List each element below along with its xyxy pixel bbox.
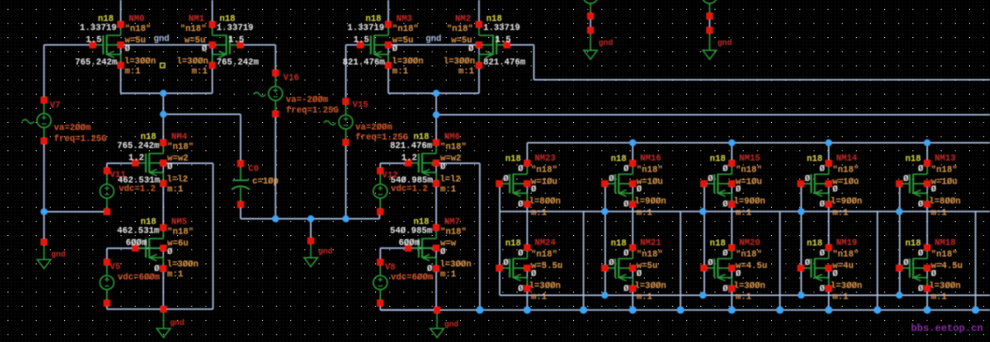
svg-text:NM5: NM5: [171, 217, 187, 227]
svg-text:1.33719: 1.33719: [347, 23, 384, 33]
svg-text:Ø: Ø: [624, 164, 630, 174]
svg-text:Ø: Ø: [918, 200, 924, 210]
svg-text:bbs.eetop.cn: bbs.eetop.cn: [911, 323, 983, 335]
svg-text:"n18": "n18": [180, 24, 206, 34]
svg-text:NM1: NM1: [188, 14, 204, 24]
svg-text:l=3ØØn: l=3ØØn: [167, 260, 199, 270]
svg-text:NM3: NM3: [396, 14, 412, 24]
svg-text:6ØØm: 6ØØm: [399, 238, 420, 248]
svg-text:Ø: Ø: [903, 258, 909, 268]
svg-text:NM0: NM0: [129, 14, 145, 24]
svg-text:freq=1.25G: freq=1.25G: [54, 134, 107, 144]
svg-text:Ø: Ø: [708, 258, 714, 268]
svg-text:l=3ØØn: l=3ØØn: [929, 281, 961, 291]
svg-text:m:1: m:1: [392, 66, 408, 76]
svg-text:n18: n18: [710, 238, 726, 248]
svg-text:Ø: Ø: [723, 248, 729, 258]
svg-text:NM7: NM7: [444, 217, 460, 227]
svg-text:gnd: gnd: [170, 319, 185, 328]
svg-text:freq=1.25G: freq=1.25G: [355, 133, 408, 143]
svg-text:l=l2: l=l2: [167, 175, 188, 185]
svg-text:1.5: 1.5: [228, 35, 244, 45]
svg-text:n18: n18: [505, 154, 521, 164]
svg-text:n18: n18: [905, 238, 921, 248]
svg-text:l=3ØØn: l=3ØØn: [177, 56, 209, 66]
svg-text:m:1: m:1: [125, 66, 141, 76]
svg-text:l=3ØØn: l=3ØØn: [831, 281, 863, 291]
svg-text:m:1: m:1: [167, 185, 183, 195]
svg-text:Ø: Ø: [708, 174, 714, 184]
svg-text:vdc=6ØØm: vdc=6ØØm: [118, 272, 160, 282]
svg-text:"n18": "n18": [637, 249, 663, 259]
svg-text:n18: n18: [611, 154, 627, 164]
svg-text:Ø: Ø: [392, 44, 398, 54]
svg-text:NM24: NM24: [535, 238, 557, 248]
svg-text:NM16: NM16: [640, 154, 661, 164]
svg-text:n18: n18: [807, 154, 823, 164]
svg-text:freq=1.25G: freq=1.25G: [286, 106, 339, 116]
svg-text:"n18": "n18": [167, 227, 193, 237]
svg-text:NM23: NM23: [535, 154, 556, 164]
svg-text:"n18": "n18": [440, 227, 466, 237]
svg-text:gnd: gnd: [154, 34, 170, 44]
svg-text:Ø: Ø: [723, 200, 729, 210]
svg-text:Ø: Ø: [931, 185, 937, 195]
svg-text:"n18": "n18": [531, 249, 557, 259]
svg-text:l=8ØØn: l=8ØØn: [929, 197, 961, 207]
svg-text:Ø: Ø: [518, 164, 524, 174]
svg-text:m:1: m:1: [833, 292, 849, 302]
svg-text:m:1: m:1: [833, 208, 849, 218]
svg-text:m:1: m:1: [531, 292, 547, 302]
svg-text:Ø: Ø: [736, 185, 742, 195]
svg-text:n18: n18: [611, 238, 627, 248]
svg-text:Ø: Ø: [637, 185, 643, 195]
svg-text:1.5: 1.5: [495, 35, 511, 45]
svg-text:"n18": "n18": [637, 165, 663, 175]
svg-text:"n18": "n18": [531, 165, 557, 175]
svg-text:NM4: NM4: [171, 132, 188, 142]
svg-text:l=3ØØn: l=3ØØn: [443, 56, 475, 66]
svg-text:Ø: Ø: [531, 185, 537, 195]
svg-text:NM18: NM18: [935, 238, 956, 248]
svg-text:vdc=1.2: vdc=1.2: [391, 184, 428, 194]
svg-text:n18: n18: [807, 238, 823, 248]
svg-text:Ø: Ø: [202, 44, 208, 54]
svg-text:Ø: Ø: [624, 200, 630, 210]
svg-text:Ø: Ø: [918, 284, 924, 294]
svg-text:V8: V8: [385, 262, 396, 272]
svg-text:gnd: gnd: [426, 34, 442, 44]
svg-text:vdc=1.2: vdc=1.2: [119, 184, 156, 194]
svg-text:m:1: m:1: [931, 208, 947, 218]
svg-text:Ø: Ø: [624, 284, 630, 294]
svg-text:1.5: 1.5: [353, 35, 369, 45]
svg-text:m:1: m:1: [458, 66, 474, 76]
svg-text:462.531m: 462.531m: [117, 226, 159, 236]
svg-text:V5: V5: [110, 262, 121, 272]
svg-text:765.242m: 765.242m: [117, 141, 159, 151]
svg-text:"n18": "n18": [736, 249, 762, 259]
svg-text:1.5: 1.5: [86, 35, 102, 45]
svg-text:Ø: Ø: [820, 200, 826, 210]
svg-text:"n18": "n18": [447, 24, 473, 34]
svg-text:m:1: m:1: [192, 66, 208, 76]
svg-text:Ø: Ø: [503, 258, 509, 268]
svg-text:NM13: NM13: [935, 154, 956, 164]
svg-text:821.476m: 821.476m: [483, 57, 525, 67]
svg-text:NM14: NM14: [836, 154, 858, 164]
svg-text:NM6: NM6: [444, 132, 460, 142]
svg-text:l=3ØØn: l=3ØØn: [529, 281, 561, 291]
svg-text:Ø: Ø: [609, 174, 615, 184]
svg-text:1.33719: 1.33719: [80, 23, 117, 33]
svg-text:"n18": "n18": [392, 24, 418, 34]
svg-text:V16: V16: [283, 73, 299, 83]
svg-text:V15: V15: [353, 100, 369, 110]
svg-text:765.242m: 765.242m: [75, 57, 117, 67]
svg-text:m:1: m:1: [440, 185, 456, 195]
svg-text:Ø: Ø: [518, 248, 524, 258]
svg-text:"n18": "n18": [833, 165, 859, 175]
svg-text:m:1: m:1: [637, 208, 653, 218]
svg-text:V7: V7: [50, 100, 61, 110]
svg-text:NM20: NM20: [739, 238, 760, 248]
svg-text:Ø: Ø: [624, 248, 630, 258]
svg-text:m:1: m:1: [736, 208, 752, 218]
svg-text:V11: V11: [110, 170, 126, 180]
svg-text:Ø: Ø: [723, 284, 729, 294]
svg-text:l=9ØØn: l=9ØØn: [734, 197, 766, 207]
svg-text:54Ø.985m: 54Ø.985m: [390, 226, 432, 236]
svg-text:Ø: Ø: [931, 269, 937, 279]
svg-text:m:1: m:1: [440, 270, 456, 280]
svg-text:gnd: gnd: [444, 320, 459, 329]
svg-text:Ø: Ø: [167, 247, 173, 257]
svg-text:Ø: Ø: [918, 248, 924, 258]
svg-text:Ø: Ø: [805, 174, 811, 184]
svg-text:m:1: m:1: [167, 270, 183, 280]
svg-text:Ø: Ø: [903, 174, 909, 184]
svg-text:821.476m: 821.476m: [343, 57, 385, 67]
svg-text:m:1: m:1: [931, 292, 947, 302]
svg-text:Ø: Ø: [503, 174, 509, 184]
svg-text:Ø: Ø: [805, 258, 811, 268]
svg-text:1.33719: 1.33719: [483, 23, 520, 33]
svg-text:gnd: gnd: [51, 250, 66, 259]
svg-text:"n18": "n18": [125, 24, 151, 34]
svg-text:l=3ØØn: l=3ØØn: [635, 281, 667, 291]
svg-text:"n18": "n18": [931, 249, 957, 259]
svg-text:C0: C0: [248, 164, 259, 174]
svg-text:NM21: NM21: [640, 238, 661, 248]
svg-text:"n18": "n18": [736, 165, 762, 175]
svg-text:1.33719: 1.33719: [217, 23, 254, 33]
svg-text:Ø: Ø: [468, 44, 474, 54]
svg-text:Ø: Ø: [637, 269, 643, 279]
svg-text:Ø: Ø: [518, 200, 524, 210]
svg-text:Ø: Ø: [518, 284, 524, 294]
svg-text:l=3ØØn: l=3ØØn: [734, 281, 766, 291]
svg-text:m:1: m:1: [637, 292, 653, 302]
svg-text:Ø: Ø: [833, 269, 839, 279]
svg-text:Ø: Ø: [736, 269, 742, 279]
svg-text:m:1: m:1: [736, 292, 752, 302]
svg-text:gnd: gnd: [718, 39, 733, 48]
svg-text:"n18": "n18": [833, 249, 859, 259]
svg-text:gnd: gnd: [599, 39, 614, 48]
svg-text:765.242m: 765.242m: [217, 57, 259, 67]
svg-text:va=2ØØm: va=2ØØm: [355, 122, 392, 132]
svg-text:Ø: Ø: [833, 185, 839, 195]
svg-text:vdc=6ØØm: vdc=6ØØm: [391, 272, 433, 282]
svg-text:"n18": "n18": [931, 165, 957, 175]
svg-text:"n18": "n18": [167, 142, 193, 152]
svg-text:Ø: Ø: [440, 247, 446, 257]
svg-text:va=2ØØm: va=2ØØm: [54, 123, 91, 133]
svg-text:Ø: Ø: [167, 162, 173, 172]
svg-text:NM15: NM15: [739, 154, 760, 164]
svg-text:n18: n18: [905, 154, 921, 164]
svg-text:m:1: m:1: [531, 208, 547, 218]
svg-text:va=-2ØØm: va=-2ØØm: [286, 95, 328, 105]
svg-text:NM2: NM2: [455, 14, 471, 24]
svg-text:Ø: Ø: [820, 284, 826, 294]
svg-text:gnd: gnd: [318, 247, 333, 256]
svg-text:Ø: Ø: [125, 44, 131, 54]
svg-text:1.2: 1.2: [401, 153, 417, 163]
svg-text:l=9ØØn: l=9ØØn: [831, 197, 863, 207]
svg-text:"n18": "n18": [440, 142, 466, 152]
svg-text:c=1Øp: c=1Øp: [252, 177, 278, 187]
svg-text:Ø: Ø: [820, 164, 826, 174]
svg-text:n18: n18: [710, 154, 726, 164]
svg-text:l=8ØØn: l=8ØØn: [529, 197, 561, 207]
svg-text:Ø: Ø: [531, 269, 537, 279]
svg-text:NM19: NM19: [836, 238, 857, 248]
svg-text:l=3ØØn: l=3ØØn: [440, 260, 472, 270]
svg-text:l=3ØØn: l=3ØØn: [392, 56, 424, 66]
svg-text:Ø: Ø: [440, 162, 446, 172]
svg-text:Ø: Ø: [918, 164, 924, 174]
svg-text:n18: n18: [505, 238, 521, 248]
svg-text:Ø: Ø: [820, 248, 826, 258]
svg-text:l=l2: l=l2: [440, 175, 461, 185]
svg-text:Ø: Ø: [609, 258, 615, 268]
svg-text:6ØØm: 6ØØm: [126, 238, 147, 248]
svg-text:l=9ØØn: l=9ØØn: [635, 197, 667, 207]
svg-text:l=3ØØn: l=3ØØn: [124, 56, 156, 66]
svg-text:1.2: 1.2: [128, 153, 144, 163]
svg-text:V12: V12: [382, 170, 398, 180]
svg-text:Ø: Ø: [723, 164, 729, 174]
